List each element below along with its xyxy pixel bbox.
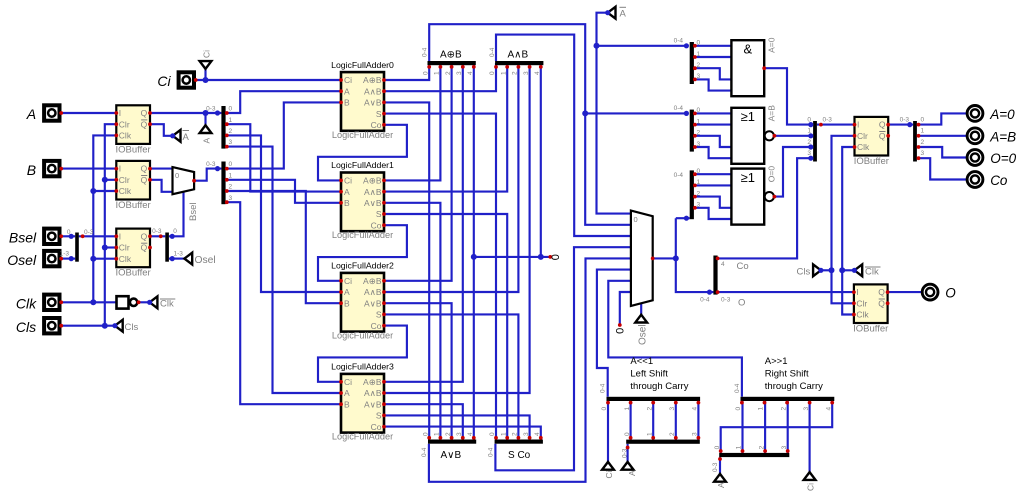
IOBuffer sel-reg [116, 229, 150, 268]
svg-text:I: I [119, 164, 121, 174]
wire oz gate in3 [694, 208, 732, 219]
svg-text:3: 3 [921, 150, 925, 157]
svg-text:2: 2 [697, 130, 701, 137]
wire IOB2.Q to muxB.in0 [150, 168, 173, 170]
svg-text:O=0: O=0 [990, 151, 1016, 166]
svg-text:4: 4 [721, 261, 725, 268]
wire and gate in3 [694, 79, 732, 90]
wire A bit2 to adder2.A [226, 135, 341, 292]
IOBuffer A-reg [116, 105, 150, 144]
svg-text:A: A [344, 187, 350, 197]
wire aeb gate in1 [694, 124, 732, 126]
svg-text:0: 0 [489, 432, 496, 436]
svg-text:4: 4 [692, 407, 699, 411]
svg-text:A∨B: A∨B [364, 198, 382, 208]
wire Ci to lshift bit0 [607, 398, 609, 462]
IOBuffer B-reg [116, 161, 150, 200]
svg-text:4: 4 [467, 71, 474, 75]
wire rshift bit4 from A bit0 [721, 398, 833, 455]
wire net Clr chain (from Cls) [105, 124, 117, 326]
svg-text:A∧B: A∧B [364, 86, 382, 96]
wire adder2 and out to andbar.2 [384, 63, 518, 292]
wire lshift bit link 2 [652, 398, 654, 441]
output pin Co [967, 172, 983, 188]
svg-text:0-4: 0-4 [674, 105, 684, 112]
wire Osel input to merger [61, 258, 75, 260]
wire oz gate in2 [694, 197, 732, 208]
svg-text:LogicFullAdder: LogicFullAdder [332, 432, 393, 442]
svg-text:0: 0 [550, 254, 562, 260]
wire A bit0 to adder0.A [226, 91, 341, 113]
svg-text:1: 1 [624, 407, 631, 411]
tunnel Ci publish [200, 61, 212, 69]
svg-text:0: 0 [697, 107, 701, 114]
svg-text:Q: Q [878, 299, 885, 309]
wire right Clr vertical [832, 136, 855, 303]
wire adder1 xor out to xorbar.1 [384, 63, 440, 180]
svg-text:Bsel: Bsel [9, 230, 37, 246]
svg-text:Ci: Ci [202, 50, 212, 58]
svg-text:A: A [201, 138, 211, 144]
tunnel Abar receive (top) [608, 7, 616, 19]
svg-text:1: 1 [921, 128, 925, 135]
wire adder1 S out to scobar.1 [384, 214, 507, 442]
svg-text:3: 3 [697, 141, 701, 148]
wire B bit0 to adder0.B [226, 102, 341, 168]
svg-text:A: A [344, 86, 350, 96]
input pin Cls [44, 318, 59, 333]
wire zero column xorbar.4/orbar.4 [473, 63, 475, 442]
wire or bus to mux.in4 [429, 258, 631, 481]
svg-text:IOBuffer: IOBuffer [115, 144, 150, 155]
svg-text:Clk: Clk [119, 131, 132, 141]
svg-text:O: O [945, 286, 956, 301]
wire Clk stub IOB2 [93, 190, 116, 192]
svg-text:4: 4 [467, 432, 474, 436]
IOBuffer flags [855, 117, 889, 156]
svg-text:A⊕B: A⊕B [363, 75, 382, 85]
svg-text:Ci: Ci [344, 276, 352, 286]
wire right Clk vertical [842, 147, 854, 315]
svg-text:2: 2 [512, 71, 519, 75]
wire tunnel Abar to AND gate and mux.in0 [597, 13, 631, 214]
wire and gate in2 [694, 68, 732, 79]
wire net A: IOB1.Q to splitter A bus [150, 112, 221, 114]
IOBuffer O-reg [854, 284, 888, 323]
tunnel A receive (lshift) [622, 462, 634, 470]
wire O bus to O=0 splitter [676, 217, 690, 219]
svg-text:3: 3 [697, 73, 701, 80]
wire Clkbar tunnel to Clk vertical [842, 269, 854, 271]
svg-text:0-3: 0-3 [206, 161, 216, 168]
svg-text:Clk: Clk [16, 296, 37, 312]
svg-text:A⊕B: A⊕B [363, 377, 382, 387]
svg-text:0: 0 [601, 407, 608, 411]
svg-text:0-3: 0-3 [823, 117, 833, 124]
svg-text:0: 0 [175, 171, 179, 180]
svg-text:2: 2 [807, 139, 811, 146]
svg-text:Q: Q [879, 120, 886, 130]
svg-text:1-3: 1-3 [60, 251, 70, 258]
svg-text:IOBuffer: IOBuffer [115, 200, 150, 211]
wire adder1.Co to adder2.Ci [318, 225, 407, 281]
svg-text:B: B [344, 198, 350, 208]
wire splitter 1-3 to tunnel Osel [169, 258, 185, 260]
svg-text:LogicFullAdder3: LogicFullAdder3 [331, 362, 394, 372]
svg-text:0-3: 0-3 [84, 229, 94, 236]
svg-text:0-4: 0-4 [674, 38, 684, 45]
wire A bit1 to adder1.A [226, 124, 341, 191]
svg-text:Co: Co [371, 220, 382, 230]
svg-text:0-4: 0-4 [674, 172, 684, 179]
tunnel Cls receive [813, 264, 821, 276]
svg-text:I: I [119, 108, 121, 118]
svg-text:1: 1 [736, 445, 743, 449]
svg-text:Bsel: Bsel [188, 203, 199, 221]
svg-text:0-3: 0-3 [622, 448, 629, 458]
svg-text:4: 4 [825, 407, 832, 411]
svg-text:3: 3 [697, 202, 701, 209]
wire Cls tunnel to Clr vertical [821, 269, 832, 271]
svg-text:Ci: Ci [157, 73, 171, 89]
merger Bsel/Osel [75, 233, 79, 262]
input pin Bsel [44, 229, 59, 244]
wire O IOB.Q to output O [888, 291, 923, 293]
wire aeb gate in3 [694, 147, 732, 158]
wire zero const to mux.in7 [620, 292, 631, 325]
svg-text:2: 2 [646, 407, 653, 411]
input pin Clk [44, 295, 59, 310]
svg-text:A: A [26, 106, 36, 122]
svg-text:LogicFullAdder: LogicFullAdder [332, 130, 393, 140]
svg-text:≥1: ≥1 [741, 109, 755, 124]
wire Clk stub IOB3 [93, 258, 116, 260]
output pin A=B [967, 128, 983, 144]
svg-text:0-3: 0-3 [152, 228, 162, 235]
svg-text:0: 0 [173, 228, 177, 235]
multiplexer Osel 8:1 [631, 211, 653, 306]
splitter A [221, 106, 225, 149]
wire adder1 and out to andbar.1 [384, 63, 507, 192]
svg-text:LogicFullAdder1: LogicFullAdder1 [331, 160, 394, 170]
NOR gate A=B [731, 108, 764, 164]
svg-text:2: 2 [758, 445, 765, 449]
wire Clk input to inverter [61, 301, 116, 303]
tunnel Clkbar publish [150, 296, 158, 308]
svg-text:Q: Q [141, 175, 148, 185]
wire lshift bit link 4 [697, 398, 699, 441]
NOR gate O=0 [731, 169, 764, 225]
svg-text:Q: Q [141, 108, 148, 118]
wire rshift bus to mux.in6 [608, 281, 742, 397]
wire Abar bus to AND splitter [597, 45, 687, 47]
svg-text:0: 0 [634, 215, 638, 224]
input pin A [44, 105, 59, 120]
svg-text:1: 1 [500, 432, 507, 436]
wire zero line bit4 [474, 256, 551, 258]
svg-text:Cls: Cls [797, 267, 811, 278]
svg-text:A∨B: A∨B [364, 399, 382, 409]
svg-text:Clk: Clk [865, 267, 879, 278]
svg-text:0-3: 0-3 [721, 297, 731, 304]
svg-text:0: 0 [67, 229, 71, 236]
svg-text:1-3: 1-3 [174, 251, 184, 258]
svg-text:4: 4 [534, 432, 541, 436]
pin and junction dots [194, 78, 198, 82]
wire aeb gate in0 [694, 112, 732, 114]
merger A and B [495, 61, 543, 65]
svg-text:0: 0 [735, 407, 742, 411]
svg-text:A: A [344, 388, 350, 398]
output pin A=0 [967, 106, 983, 122]
wire adder3 Co out to scobar.4 [384, 427, 541, 442]
svg-text:A>>1: A>>1 [765, 356, 788, 367]
svg-text:0: 0 [229, 106, 233, 113]
svg-text:A: A [716, 482, 726, 488]
svg-text:A: A [183, 132, 190, 143]
svg-text:0-4: 0-4 [600, 383, 607, 393]
wire net O to IOBuffer [718, 291, 854, 293]
svg-text:1: 1 [758, 407, 765, 411]
svg-text:through Carry: through Carry [630, 381, 688, 392]
svg-text:I: I [857, 120, 859, 130]
wire tunnel Osel to mux select [640, 303, 642, 314]
multiplexer B (Bsel) [173, 167, 195, 194]
tunnel Osel publish [184, 253, 192, 265]
wire inverter out to tunnel Clkbar [139, 301, 150, 303]
svg-text:1: 1 [697, 51, 701, 58]
wire flags bus to IOB.I [817, 124, 855, 126]
svg-text:0: 0 [624, 432, 631, 436]
merger A xor B [428, 61, 476, 65]
LogicFullAdder2 [341, 273, 384, 332]
tunnel A receive (rshift) [714, 474, 726, 482]
svg-text:Clk: Clk [856, 310, 869, 320]
svg-text:0-4: 0-4 [489, 47, 496, 57]
wire net Ci: input to adder0.Ci [194, 79, 341, 81]
svg-text:Clr: Clr [119, 175, 130, 185]
wire and gate in0 [694, 45, 732, 47]
wire O=0 out to flags.2 [774, 147, 813, 197]
wire A=0 out to flags.0 [764, 68, 813, 124]
svg-text:0-4: 0-4 [421, 447, 428, 457]
svg-text:A=B: A=B [767, 105, 777, 122]
svg-text:2: 2 [445, 432, 452, 436]
wire A bus to rshift splitter [719, 457, 721, 474]
svg-text:0-3: 0-3 [206, 106, 216, 113]
svg-text:Q: Q [141, 243, 148, 253]
wire rshift bit link 2 [764, 398, 766, 455]
svg-text:Q: Q [878, 287, 885, 297]
svg-text:3: 3 [692, 432, 699, 436]
wire tunnel-A stub [204, 113, 206, 125]
svg-text:1: 1 [646, 432, 653, 436]
tunnel Ci receive (lshift) [602, 462, 614, 470]
svg-text:Clk: Clk [857, 142, 870, 152]
svg-text:LogicFullAdder: LogicFullAdder [332, 230, 393, 240]
svg-text:0: 0 [697, 40, 701, 47]
wire A=B out to flags.1 [774, 135, 813, 137]
splitter Co/O [713, 256, 717, 295]
svg-text:2: 2 [229, 128, 233, 135]
svg-text:Clr: Clr [856, 299, 867, 309]
wire lshift bus to mux.in5 [597, 270, 631, 397]
svg-text:A∨B: A∨B [441, 450, 462, 461]
wire IOB2.Qbar to muxB.in1 [150, 180, 173, 192]
wire flag Co wire [917, 158, 967, 179]
wire adder2 xor out to xorbar.2 [384, 63, 452, 281]
wire oz gate in0 [694, 173, 732, 175]
svg-text:Ci: Ci [806, 483, 816, 491]
svg-text:S: S [376, 109, 382, 119]
svg-text:0-3: 0-3 [712, 462, 719, 472]
svg-text:3: 3 [229, 139, 233, 146]
svg-text:1: 1 [500, 71, 507, 75]
svg-text:0: 0 [921, 117, 925, 124]
svg-text:IOBuffer: IOBuffer [115, 268, 150, 279]
wire flags IOB.Q to splitter [888, 124, 913, 126]
splitter flags out [913, 121, 917, 162]
svg-text:3: 3 [523, 71, 530, 75]
wire sco bus to mux.in3 [495, 247, 631, 470]
wire adder2 or out to orbar.2 [384, 303, 452, 442]
svg-text:&: & [743, 42, 752, 57]
tunnel Clkbar receive [854, 264, 862, 276]
svg-text:A∧B: A∧B [508, 50, 529, 61]
svg-text:3: 3 [669, 407, 676, 411]
svg-text:A∧B: A∧B [364, 388, 382, 398]
wire mux out to O splitter [653, 257, 676, 259]
svg-text:Osel: Osel [638, 324, 649, 345]
wire Cls input to tunnel Cls [61, 325, 115, 327]
wire zero column andbar.4 [540, 63, 542, 257]
svg-text:Right Shift: Right Shift [765, 369, 809, 380]
wire aeb gate in2 [694, 136, 732, 147]
svg-text:Co: Co [990, 173, 1008, 188]
svg-text:0: 0 [422, 432, 429, 436]
svg-text:3: 3 [456, 71, 463, 75]
tunnel A publish [200, 125, 212, 133]
svg-text:Osel: Osel [195, 255, 216, 266]
svg-text:0-4: 0-4 [488, 447, 495, 457]
svg-text:B: B [344, 399, 350, 409]
merger A or B [428, 440, 476, 444]
inverter Clk [117, 296, 129, 308]
svg-text:IOBuffer: IOBuffer [854, 156, 889, 167]
splitter for NOR gate O=0 [690, 170, 694, 219]
output pin O [922, 284, 938, 300]
svg-text:2: 2 [697, 190, 701, 197]
tunnel Ci receive (rshift) [804, 472, 816, 480]
wire xor bus to mux.in1 [429, 24, 631, 225]
input pin Ci [179, 72, 194, 87]
splitter B [221, 162, 225, 205]
wire adder0 and out to andbar.0 [384, 63, 496, 91]
svg-text:Clr: Clr [119, 119, 130, 129]
svg-text:A<<1: A<<1 [630, 356, 653, 367]
svg-text:3: 3 [456, 432, 463, 436]
wire splitter bit0 up to muxB select [169, 192, 184, 236]
svg-text:A⊕B: A⊕B [363, 176, 382, 186]
wire xor bus to A=B splitter [585, 112, 686, 114]
svg-text:S Co: S Co [508, 450, 531, 461]
svg-text:2: 2 [921, 139, 925, 146]
svg-text:Cls: Cls [125, 322, 139, 333]
svg-text:3: 3 [229, 195, 233, 202]
wire O bus vertical [676, 218, 714, 292]
svg-text:O: O [738, 298, 745, 309]
wire tunnel-Ci stub [204, 69, 206, 80]
svg-text:Ci: Ci [604, 470, 614, 478]
svg-text:Cls: Cls [16, 319, 36, 335]
wire IOB3.Q to splitter [150, 235, 165, 237]
svg-text:1: 1 [807, 128, 811, 135]
svg-text:0: 0 [807, 117, 811, 124]
LogicFullAdder0 [341, 72, 384, 131]
svg-text:B: B [27, 162, 36, 178]
wire adder1 or out to orbar.1 [384, 203, 440, 442]
svg-text:Clk: Clk [160, 299, 174, 310]
wire adder0 S out to scobar.0 [384, 114, 496, 442]
splitter after IOB3 [165, 233, 169, 262]
svg-text:Clk: Clk [119, 254, 132, 264]
wire A input to IOB1.I [61, 112, 116, 114]
svg-text:3: 3 [523, 432, 530, 436]
wire and bus to mux.in2 [496, 35, 631, 236]
svg-text:A∧B: A∧B [364, 187, 382, 197]
svg-text:A=B: A=B [989, 129, 1016, 144]
svg-text:0: 0 [697, 168, 701, 175]
wire merger bus to IOB3.I [79, 235, 117, 237]
svg-text:A=0: A=0 [989, 107, 1015, 122]
tunnel Cls publish [115, 320, 123, 332]
wire Clr stub IOB3 [105, 246, 117, 248]
wire adder3 or out to orbar.3 [384, 404, 463, 442]
merger flags [813, 121, 817, 162]
svg-text:0: 0 [229, 161, 233, 168]
svg-text:Left Shift: Left Shift [630, 369, 668, 380]
wire B bit2 to adder2.B [226, 191, 341, 303]
wire adder2 S out to scobar.2 [384, 314, 518, 441]
svg-text:0: 0 [714, 445, 721, 449]
svg-text:Q: Q [141, 119, 148, 129]
wire Clr stub IOB2 [105, 179, 117, 181]
svg-text:2: 2 [229, 184, 233, 191]
svg-text:B: B [344, 298, 350, 308]
splitter for NOR gate A=B [690, 110, 694, 152]
input pin B [44, 161, 59, 176]
svg-text:Clr: Clr [857, 131, 868, 141]
svg-text:S: S [376, 310, 382, 320]
svg-text:3: 3 [781, 445, 788, 449]
LogicFullAdder3 [341, 374, 384, 433]
svg-text:A⊕B: A⊕B [363, 276, 382, 286]
svg-text:A=0: A=0 [767, 37, 777, 53]
svg-text:1: 1 [434, 71, 441, 75]
svg-text:Q: Q [879, 131, 886, 141]
svg-text:Co: Co [371, 321, 382, 331]
wire oz gate in1 [694, 184, 732, 186]
wire and gate in1 [694, 56, 732, 58]
wire adder3 and out to andbar.3 [384, 63, 530, 393]
tunnel Osel receive [635, 315, 647, 323]
wire adder0 or out to orbar.0 [384, 102, 429, 441]
svg-text:IOBuffer: IOBuffer [853, 323, 888, 334]
svg-text:1: 1 [229, 172, 233, 179]
svg-text:S: S [376, 411, 382, 421]
wire rshift bit link 1 [741, 398, 743, 455]
svg-text:0-4: 0-4 [734, 383, 741, 393]
